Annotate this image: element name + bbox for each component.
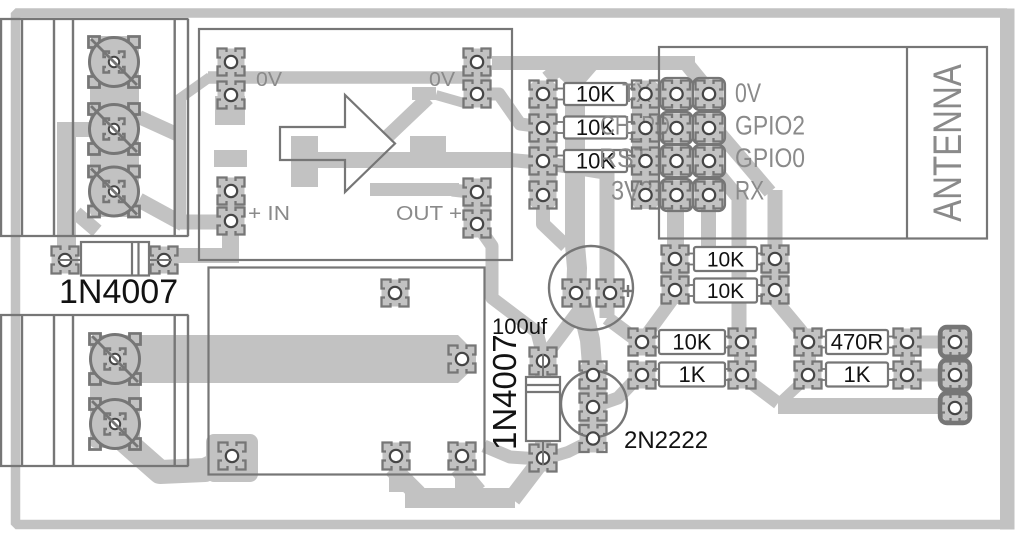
svg-text:100uf: 100uf xyxy=(492,314,548,339)
svg-text:0V: 0V xyxy=(429,69,456,91)
svg-text:2N2222: 2N2222 xyxy=(624,427,708,454)
svg-text:10K: 10K xyxy=(672,330,711,355)
svg-text:RX: RX xyxy=(735,176,764,206)
svg-text:1N4007: 1N4007 xyxy=(59,273,178,311)
svg-text:0V: 0V xyxy=(735,78,761,108)
svg-text:10K: 10K xyxy=(707,249,744,272)
svg-text:OUT +: OUT + xyxy=(396,203,462,225)
svg-text:1N4007: 1N4007 xyxy=(486,334,523,450)
svg-text:+ IN: + IN xyxy=(248,203,290,225)
svg-text:470R: 470R xyxy=(831,330,884,355)
svg-text:1K: 1K xyxy=(679,362,706,387)
svg-text:GPIO0: GPIO0 xyxy=(735,143,805,173)
svg-text:10K: 10K xyxy=(707,280,744,303)
svg-text:1K: 1K xyxy=(844,362,871,387)
svg-text:ANTENNA: ANTENNA xyxy=(925,64,970,222)
svg-text:0V: 0V xyxy=(256,69,283,91)
svg-text:GPIO2: GPIO2 xyxy=(735,111,805,141)
svg-text:10K: 10K xyxy=(576,82,615,107)
